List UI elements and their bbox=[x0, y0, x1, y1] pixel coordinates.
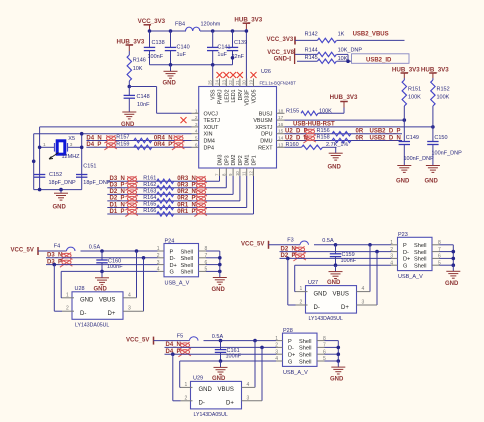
wire R155 to HUB_3V3 bbox=[318, 112, 344, 114]
svg-text:U27: U27 bbox=[308, 280, 318, 286]
ground C149 bbox=[397, 166, 411, 173]
U26 left pin stubs bbox=[192, 112, 199, 114]
svg-text:18pF_DNP: 18pF_DNP bbox=[49, 180, 77, 186]
svg-text:Shell: Shell bbox=[414, 250, 426, 256]
svg-text:DPU: DPU bbox=[261, 132, 272, 138]
svg-text:16: 16 bbox=[278, 122, 284, 128]
ground C148 bbox=[122, 112, 136, 119]
P23 left pin stubs bbox=[391, 244, 398, 246]
wire R146 to node bbox=[128, 81, 130, 87]
svg-text:2: 2 bbox=[275, 343, 278, 349]
svg-text:DMU: DMU bbox=[260, 139, 272, 145]
svg-text:TESTJ: TESTJ bbox=[204, 118, 221, 124]
svg-text:D3_P: D3_P bbox=[110, 183, 125, 189]
svg-text:1K: 1K bbox=[338, 32, 345, 38]
svg-text:DP3: DP3 bbox=[224, 155, 230, 165]
wire HUB_3V3 drop to VD33F bbox=[245, 23, 247, 29]
port marker 0R2_N bbox=[194, 189, 207, 197]
svg-text:DP1: DP1 bbox=[252, 155, 258, 165]
wire XRSTJ row 16 bbox=[285, 126, 433, 128]
wire P24 shell bus bbox=[206, 250, 220, 252]
svg-text:100nF: 100nF bbox=[341, 258, 357, 264]
port marker D2_N bbox=[293, 246, 306, 254]
transistor U29 LY143DA05UL bbox=[191, 381, 242, 409]
svg-text:HUB_3V3: HUB_3V3 bbox=[330, 94, 358, 101]
svg-text:R142: R142 bbox=[305, 32, 318, 38]
capacitor C138 bbox=[149, 31, 151, 47]
svg-text:DM2: DM2 bbox=[231, 154, 237, 165]
svg-text:C138: C138 bbox=[152, 40, 165, 46]
capacitor C161 bbox=[219, 339, 223, 343]
wire elbow R164 to pin bbox=[239, 176, 241, 201]
no-ERC marks top pins bbox=[217, 72, 223, 78]
svg-text:14: 14 bbox=[278, 136, 284, 142]
wire D- to U28 pin3 bbox=[142, 256, 146, 260]
wire net row D3_N/0R3_N bbox=[107, 180, 219, 182]
node R146/C148 bbox=[128, 85, 132, 89]
wire elbow R162 to pin bbox=[225, 176, 227, 188]
svg-text:VDD5: VDD5 bbox=[252, 89, 258, 103]
wire net row D1_P/0R1_P bbox=[107, 213, 253, 215]
svg-text:10nF: 10nF bbox=[137, 102, 150, 108]
svg-text:R155: R155 bbox=[286, 108, 299, 114]
wire G to U28 pin1 bbox=[60, 271, 62, 297]
svg-text:DM3: DM3 bbox=[218, 154, 224, 165]
wire G to U27 pin1 bbox=[294, 265, 296, 291]
port marker 0R4_P bbox=[172, 142, 185, 150]
svg-text:VCC_3V3: VCC_3V3 bbox=[267, 37, 294, 43]
wire VBUSM row 17 bbox=[285, 119, 405, 121]
svg-text:0R1_N: 0R1_N bbox=[177, 202, 196, 208]
svg-text:10K_DNP: 10K_DNP bbox=[338, 48, 363, 54]
port marker D3_P bbox=[125, 183, 137, 191]
wire R144 row bbox=[295, 53, 317, 55]
svg-text:VBUSM: VBUSM bbox=[253, 118, 273, 124]
svg-text:D1_N: D1_N bbox=[110, 202, 125, 208]
svg-text:20: 20 bbox=[242, 80, 247, 85]
svg-text:F3: F3 bbox=[287, 238, 293, 244]
svg-text:C148: C148 bbox=[137, 94, 150, 100]
svg-text:USB-HUB-RST: USB-HUB-RST bbox=[293, 122, 335, 128]
svg-text:1: 1 bbox=[66, 292, 69, 298]
ground cap rail bbox=[170, 65, 172, 72]
svg-text:D1_P: D1_P bbox=[110, 209, 125, 215]
wire D+ to U27 pin2 bbox=[286, 257, 290, 261]
svg-text:D-: D- bbox=[288, 346, 294, 352]
svg-text:VCC_5V: VCC_5V bbox=[126, 337, 149, 343]
svg-text:D-: D- bbox=[170, 256, 176, 262]
svg-text:XRSTJ: XRSTJ bbox=[255, 125, 272, 131]
P28 left pin stubs bbox=[276, 340, 283, 342]
svg-text:100nF: 100nF bbox=[148, 54, 164, 60]
svg-text:Shell: Shell bbox=[299, 353, 311, 359]
svg-text:U26: U26 bbox=[261, 69, 271, 75]
svg-text:Shell: Shell bbox=[299, 339, 311, 345]
port marker U2_D_P bbox=[303, 129, 316, 137]
wire VBUS row P28 bbox=[204, 340, 277, 342]
svg-text:3: 3 bbox=[275, 349, 278, 355]
svg-text:D4_N: D4_N bbox=[86, 135, 101, 141]
wire outer loop left bbox=[33, 134, 35, 190]
wire VBUS row P23 bbox=[314, 244, 391, 246]
svg-text:U29: U29 bbox=[193, 376, 203, 382]
svg-text:3: 3 bbox=[390, 254, 393, 260]
svg-text:2: 2 bbox=[157, 253, 160, 259]
connector P28 USB_A_V bbox=[283, 333, 318, 366]
svg-text:D-: D- bbox=[314, 305, 320, 311]
svg-text:GND: GND bbox=[396, 178, 410, 184]
svg-text:BUSJ: BUSJ bbox=[259, 111, 273, 117]
svg-text:3: 3 bbox=[128, 306, 131, 312]
svg-text:Shell: Shell bbox=[299, 359, 311, 365]
P28 right pin stubs bbox=[317, 340, 325, 342]
wire crystal right vertical bbox=[81, 134, 83, 190]
svg-text:0R: 0R bbox=[356, 129, 364, 135]
svg-text:GND: GND bbox=[328, 164, 342, 170]
port marker D1_P bbox=[125, 209, 137, 217]
svg-text:GND: GND bbox=[425, 178, 439, 184]
svg-text:GND: GND bbox=[163, 80, 177, 86]
svg-text:DM4: DM4 bbox=[204, 139, 215, 145]
port marker 0R3_P bbox=[194, 183, 207, 191]
svg-text:R145: R145 bbox=[305, 55, 318, 61]
ground P24 bbox=[219, 271, 221, 277]
U26 top pin stubs bbox=[212, 79, 214, 87]
port USB2_ID bbox=[352, 54, 410, 64]
svg-text:4: 4 bbox=[195, 129, 198, 135]
svg-text:USB_A_V: USB_A_V bbox=[283, 370, 308, 376]
capacitor C139 bbox=[232, 31, 234, 47]
wire XOUT loop bbox=[40, 126, 192, 128]
svg-text:Shell: Shell bbox=[181, 270, 193, 276]
svg-text:3: 3 bbox=[362, 300, 365, 306]
port marker 0R1_N bbox=[194, 202, 207, 210]
svg-text:1: 1 bbox=[185, 382, 188, 388]
svg-text:GND: GND bbox=[314, 291, 328, 297]
port marker D3_N bbox=[60, 253, 73, 261]
svg-text:LY143DA05UL: LY143DA05UL bbox=[194, 412, 228, 418]
transistor U27 LY143DA05UL bbox=[306, 286, 357, 314]
wire VSS drop bbox=[212, 65, 214, 87]
svg-text:PWRJ: PWRJ bbox=[218, 89, 224, 104]
svg-text:0R3_P: 0R3_P bbox=[177, 183, 195, 189]
svg-text:2: 2 bbox=[195, 115, 198, 121]
ground crystal bbox=[60, 190, 62, 194]
svg-text:LY143DA05UL: LY143DA05UL bbox=[309, 316, 343, 322]
U29 pin stubs bbox=[181, 386, 193, 388]
no-ERC mark TESTJ bbox=[181, 117, 187, 123]
svg-text:2: 2 bbox=[300, 300, 303, 306]
svg-text:12MHZ: 12MHZ bbox=[62, 154, 81, 160]
svg-text:XIN: XIN bbox=[204, 132, 213, 138]
wire net row U2_D_P/0R bbox=[285, 133, 403, 135]
svg-text:R152: R152 bbox=[437, 87, 450, 93]
U28 pin stubs bbox=[62, 297, 74, 299]
svg-text:GND: GND bbox=[330, 377, 344, 383]
resistor R152 bbox=[431, 80, 435, 106]
capacitor C148 bbox=[128, 87, 130, 96]
capacitor C159 bbox=[334, 243, 338, 247]
svg-text:21: 21 bbox=[235, 80, 240, 85]
svg-text:12: 12 bbox=[249, 171, 254, 176]
svg-text:U28: U28 bbox=[75, 286, 85, 292]
wire top 3V3 rail bbox=[150, 30, 187, 32]
svg-text:R166: R166 bbox=[143, 208, 156, 214]
capacitor C160 bbox=[100, 249, 104, 253]
svg-text:23: 23 bbox=[221, 80, 226, 85]
wire D- row P23 bbox=[280, 251, 392, 253]
wire P23 shell bus bbox=[440, 244, 454, 246]
svg-text:G: G bbox=[288, 359, 292, 365]
svg-text:18: 18 bbox=[278, 108, 284, 114]
svg-text:C150: C150 bbox=[434, 135, 447, 141]
svg-text:19: 19 bbox=[249, 80, 254, 85]
P24 right pin stubs bbox=[199, 250, 207, 252]
svg-text:VCC_5V: VCC_5V bbox=[241, 242, 264, 248]
svg-text:GND: GND bbox=[445, 281, 459, 287]
wire R142 row bbox=[295, 39, 317, 41]
svg-text:10K: 10K bbox=[338, 56, 348, 62]
capacitor C150 bbox=[432, 127, 434, 142]
svg-text:4: 4 bbox=[247, 382, 250, 388]
svg-text:OVCJ: OVCJ bbox=[204, 111, 219, 117]
svg-text:VBUS: VBUS bbox=[99, 298, 115, 304]
port marker 0R4_N bbox=[172, 135, 185, 143]
svg-text:D4_P: D4_P bbox=[86, 142, 101, 148]
svg-text:0.5A: 0.5A bbox=[212, 334, 224, 340]
svg-text:VSS: VSS bbox=[211, 89, 217, 100]
port marker D2_P bbox=[125, 196, 137, 204]
svg-text:1: 1 bbox=[157, 246, 160, 252]
wire D- row P28 bbox=[165, 346, 277, 348]
wire net row D3_P/0R3_P bbox=[107, 187, 226, 189]
P23 right pin stubs bbox=[432, 244, 440, 246]
svg-text:10: 10 bbox=[235, 171, 240, 176]
svg-text:D+: D+ bbox=[288, 353, 295, 359]
svg-text:P: P bbox=[288, 339, 292, 345]
svg-text:25: 25 bbox=[208, 80, 213, 85]
svg-text:22: 22 bbox=[228, 80, 233, 85]
ground C161 bbox=[220, 361, 222, 367]
op-amp U26 FE1.1s hub controller bbox=[199, 87, 277, 169]
svg-text:0R1_P: 0R1_P bbox=[177, 209, 195, 215]
svg-text:Shell: Shell bbox=[299, 346, 311, 352]
svg-text:R157: R157 bbox=[116, 135, 129, 141]
P24 left pin stubs bbox=[158, 250, 165, 252]
port marker D4_N bbox=[178, 342, 191, 350]
svg-text:0.5A: 0.5A bbox=[322, 238, 334, 244]
svg-text:1uF: 1uF bbox=[217, 52, 227, 58]
svg-text:Shell: Shell bbox=[181, 256, 193, 262]
svg-text:R144: R144 bbox=[305, 48, 318, 54]
svg-text:R163: R163 bbox=[143, 189, 156, 195]
port marker D2_P bbox=[293, 253, 306, 261]
wire net row D4_N/0R4_N bbox=[86, 140, 191, 142]
svg-text:XOUT: XOUT bbox=[204, 125, 220, 131]
svg-text:LED1: LED1 bbox=[231, 89, 237, 102]
svg-text:3: 3 bbox=[157, 260, 160, 266]
svg-text:R146: R146 bbox=[133, 58, 146, 64]
svg-text:0R4_N: 0R4_N bbox=[154, 135, 173, 141]
wire G row P24 bbox=[61, 270, 157, 272]
svg-text:0.5A: 0.5A bbox=[89, 244, 101, 250]
junction dots top rail bbox=[148, 29, 152, 33]
resistor R151 bbox=[402, 80, 406, 106]
port marker D4_P bbox=[104, 142, 117, 150]
svg-text:C149: C149 bbox=[406, 135, 419, 141]
wire D+ row P28 bbox=[165, 353, 277, 355]
svg-text:1: 1 bbox=[275, 336, 278, 342]
svg-text:2: 2 bbox=[185, 395, 188, 401]
port marker 0R2_P bbox=[194, 196, 207, 204]
wire D- row P24 bbox=[46, 257, 158, 259]
svg-text:GND: GND bbox=[212, 287, 226, 293]
wire G row P28 bbox=[180, 360, 276, 362]
wire VBUS row P24 bbox=[81, 250, 158, 252]
svg-text:R156: R156 bbox=[317, 128, 330, 134]
svg-text:VBUS: VBUS bbox=[218, 387, 234, 393]
port marker U2_D_N bbox=[303, 135, 316, 143]
wire G row P23 bbox=[295, 264, 391, 266]
wire to OVCJ pin 1 bbox=[129, 86, 156, 88]
svg-text:6: 6 bbox=[195, 142, 198, 148]
svg-text:DP4: DP4 bbox=[204, 145, 215, 151]
capacitor C141 bbox=[212, 31, 214, 47]
port marker D4_N bbox=[104, 135, 117, 143]
svg-text:2: 2 bbox=[66, 306, 69, 312]
ground C160 bbox=[101, 271, 103, 277]
wire elbow R161 to pin bbox=[219, 176, 221, 181]
svg-text:4: 4 bbox=[157, 267, 160, 273]
wire D+ row P24 bbox=[46, 264, 158, 266]
wire XIN row bbox=[34, 133, 192, 135]
svg-text:D2_N: D2_N bbox=[110, 189, 125, 195]
capacitor C140 bbox=[170, 31, 172, 47]
svg-text:2: 2 bbox=[390, 247, 393, 253]
svg-text:GND: GND bbox=[274, 56, 288, 62]
resistor R146 bbox=[127, 55, 131, 81]
svg-text:11: 11 bbox=[242, 171, 247, 176]
svg-text:0R2_N: 0R2_N bbox=[177, 189, 196, 195]
svg-text:D+: D+ bbox=[170, 263, 177, 269]
ground C150 bbox=[426, 166, 440, 173]
svg-text:USB2_VBUS: USB2_VBUS bbox=[353, 32, 389, 38]
svg-text:1uF: 1uF bbox=[177, 52, 187, 58]
svg-text:REXT: REXT bbox=[258, 145, 273, 151]
svg-text:GND: GND bbox=[80, 298, 94, 304]
svg-text:D-: D- bbox=[199, 401, 205, 407]
svg-text:VBUS: VBUS bbox=[333, 291, 349, 297]
wire P28 shell bus bbox=[325, 340, 339, 342]
svg-text:R165: R165 bbox=[143, 202, 156, 208]
svg-text:R164: R164 bbox=[143, 195, 156, 201]
capacitor C149 bbox=[403, 120, 405, 141]
ground P28 bbox=[337, 361, 339, 367]
svg-text:R151: R151 bbox=[408, 87, 421, 93]
svg-text:D+: D+ bbox=[341, 305, 349, 311]
U26 bottom pin stubs bbox=[219, 168, 221, 176]
port marker D4_P bbox=[178, 349, 191, 357]
svg-text:C151: C151 bbox=[83, 163, 96, 169]
svg-text:DM1: DM1 bbox=[245, 154, 251, 165]
svg-text:4: 4 bbox=[275, 356, 278, 362]
svg-text:0R4_P: 0R4_P bbox=[154, 142, 172, 148]
svg-text:18pF_DNP: 18pF_DNP bbox=[83, 180, 111, 186]
svg-text:USB_A_V: USB_A_V bbox=[165, 280, 190, 286]
svg-text:X5: X5 bbox=[68, 136, 75, 142]
svg-text:0R3_N: 0R3_N bbox=[177, 176, 196, 182]
svg-text:P23: P23 bbox=[398, 232, 408, 238]
svg-text:Shell: Shell bbox=[414, 264, 426, 270]
svg-text:R161: R161 bbox=[143, 176, 156, 182]
wire VBUS to U28 pin4 bbox=[135, 249, 139, 253]
svg-text:1: 1 bbox=[43, 142, 46, 148]
wire D- to U29 pin3 bbox=[260, 346, 264, 350]
svg-text:4: 4 bbox=[362, 286, 365, 292]
svg-text:F5: F5 bbox=[177, 333, 183, 339]
svg-text:3: 3 bbox=[195, 122, 198, 128]
svg-text:USB_A_V: USB_A_V bbox=[398, 274, 423, 280]
svg-text:100nF_DNP: 100nF_DNP bbox=[404, 156, 435, 162]
svg-text:5: 5 bbox=[195, 136, 198, 142]
svg-text:U2_D_N: U2_D_N bbox=[285, 135, 308, 141]
svg-text:P28: P28 bbox=[283, 328, 293, 334]
wire net row D1_N/0R1_N bbox=[107, 207, 246, 209]
svg-text:G: G bbox=[170, 270, 174, 276]
svg-text:DRV: DRV bbox=[238, 89, 244, 100]
wire net row D2_N/0R2_N bbox=[107, 193, 233, 195]
svg-text:100nF_DNP: 100nF_DNP bbox=[432, 150, 463, 156]
wire elbow R165 to pin bbox=[246, 176, 248, 208]
ground R160 bbox=[335, 147, 337, 153]
svg-text:1: 1 bbox=[195, 108, 198, 114]
svg-text:FE1.1s-BQFN24BT: FE1.1s-BQFN24BT bbox=[260, 80, 297, 85]
port marker D3_P bbox=[60, 259, 73, 267]
svg-text:P24: P24 bbox=[165, 238, 175, 244]
svg-text:F4: F4 bbox=[54, 244, 60, 250]
svg-text:Shell: Shell bbox=[181, 263, 193, 269]
svg-text:C139: C139 bbox=[234, 40, 247, 46]
ground C159 bbox=[335, 265, 337, 271]
svg-text:R159: R159 bbox=[116, 142, 129, 148]
svg-text:D+: D+ bbox=[226, 401, 234, 407]
connector P24 USB_A_V bbox=[164, 244, 199, 277]
svg-text:13: 13 bbox=[278, 142, 284, 148]
wire net row U2_D_N/0R bbox=[285, 140, 403, 142]
svg-text:R162: R162 bbox=[143, 182, 156, 188]
wire elbow R166 to pin bbox=[253, 176, 255, 214]
svg-text:D+: D+ bbox=[108, 311, 116, 317]
svg-text:3: 3 bbox=[70, 142, 73, 148]
U26 right pin stubs bbox=[277, 112, 285, 114]
svg-text:D+: D+ bbox=[403, 257, 410, 263]
arrow mark near crystal bbox=[49, 153, 59, 160]
svg-text:VCC_3V3: VCC_3V3 bbox=[138, 18, 166, 25]
wire crystal bottom rail bbox=[34, 189, 82, 191]
wire elbow R163 to pin bbox=[232, 176, 234, 194]
svg-text:FB4: FB4 bbox=[175, 21, 185, 27]
wire G to U29 pin1 bbox=[179, 361, 181, 387]
svg-text:USB2_D_N: USB2_D_N bbox=[370, 135, 401, 141]
svg-text:100nF: 100nF bbox=[226, 354, 242, 360]
svg-text:100K: 100K bbox=[437, 95, 450, 101]
svg-text:R158: R158 bbox=[317, 135, 330, 141]
svg-text:1: 1 bbox=[390, 240, 393, 246]
wire VBUS to U29 pin4 bbox=[253, 339, 257, 343]
transistor U28 LY143DA05UL bbox=[72, 292, 123, 320]
svg-text:3: 3 bbox=[247, 395, 250, 401]
svg-text:0R2_P: 0R2_P bbox=[177, 196, 195, 202]
